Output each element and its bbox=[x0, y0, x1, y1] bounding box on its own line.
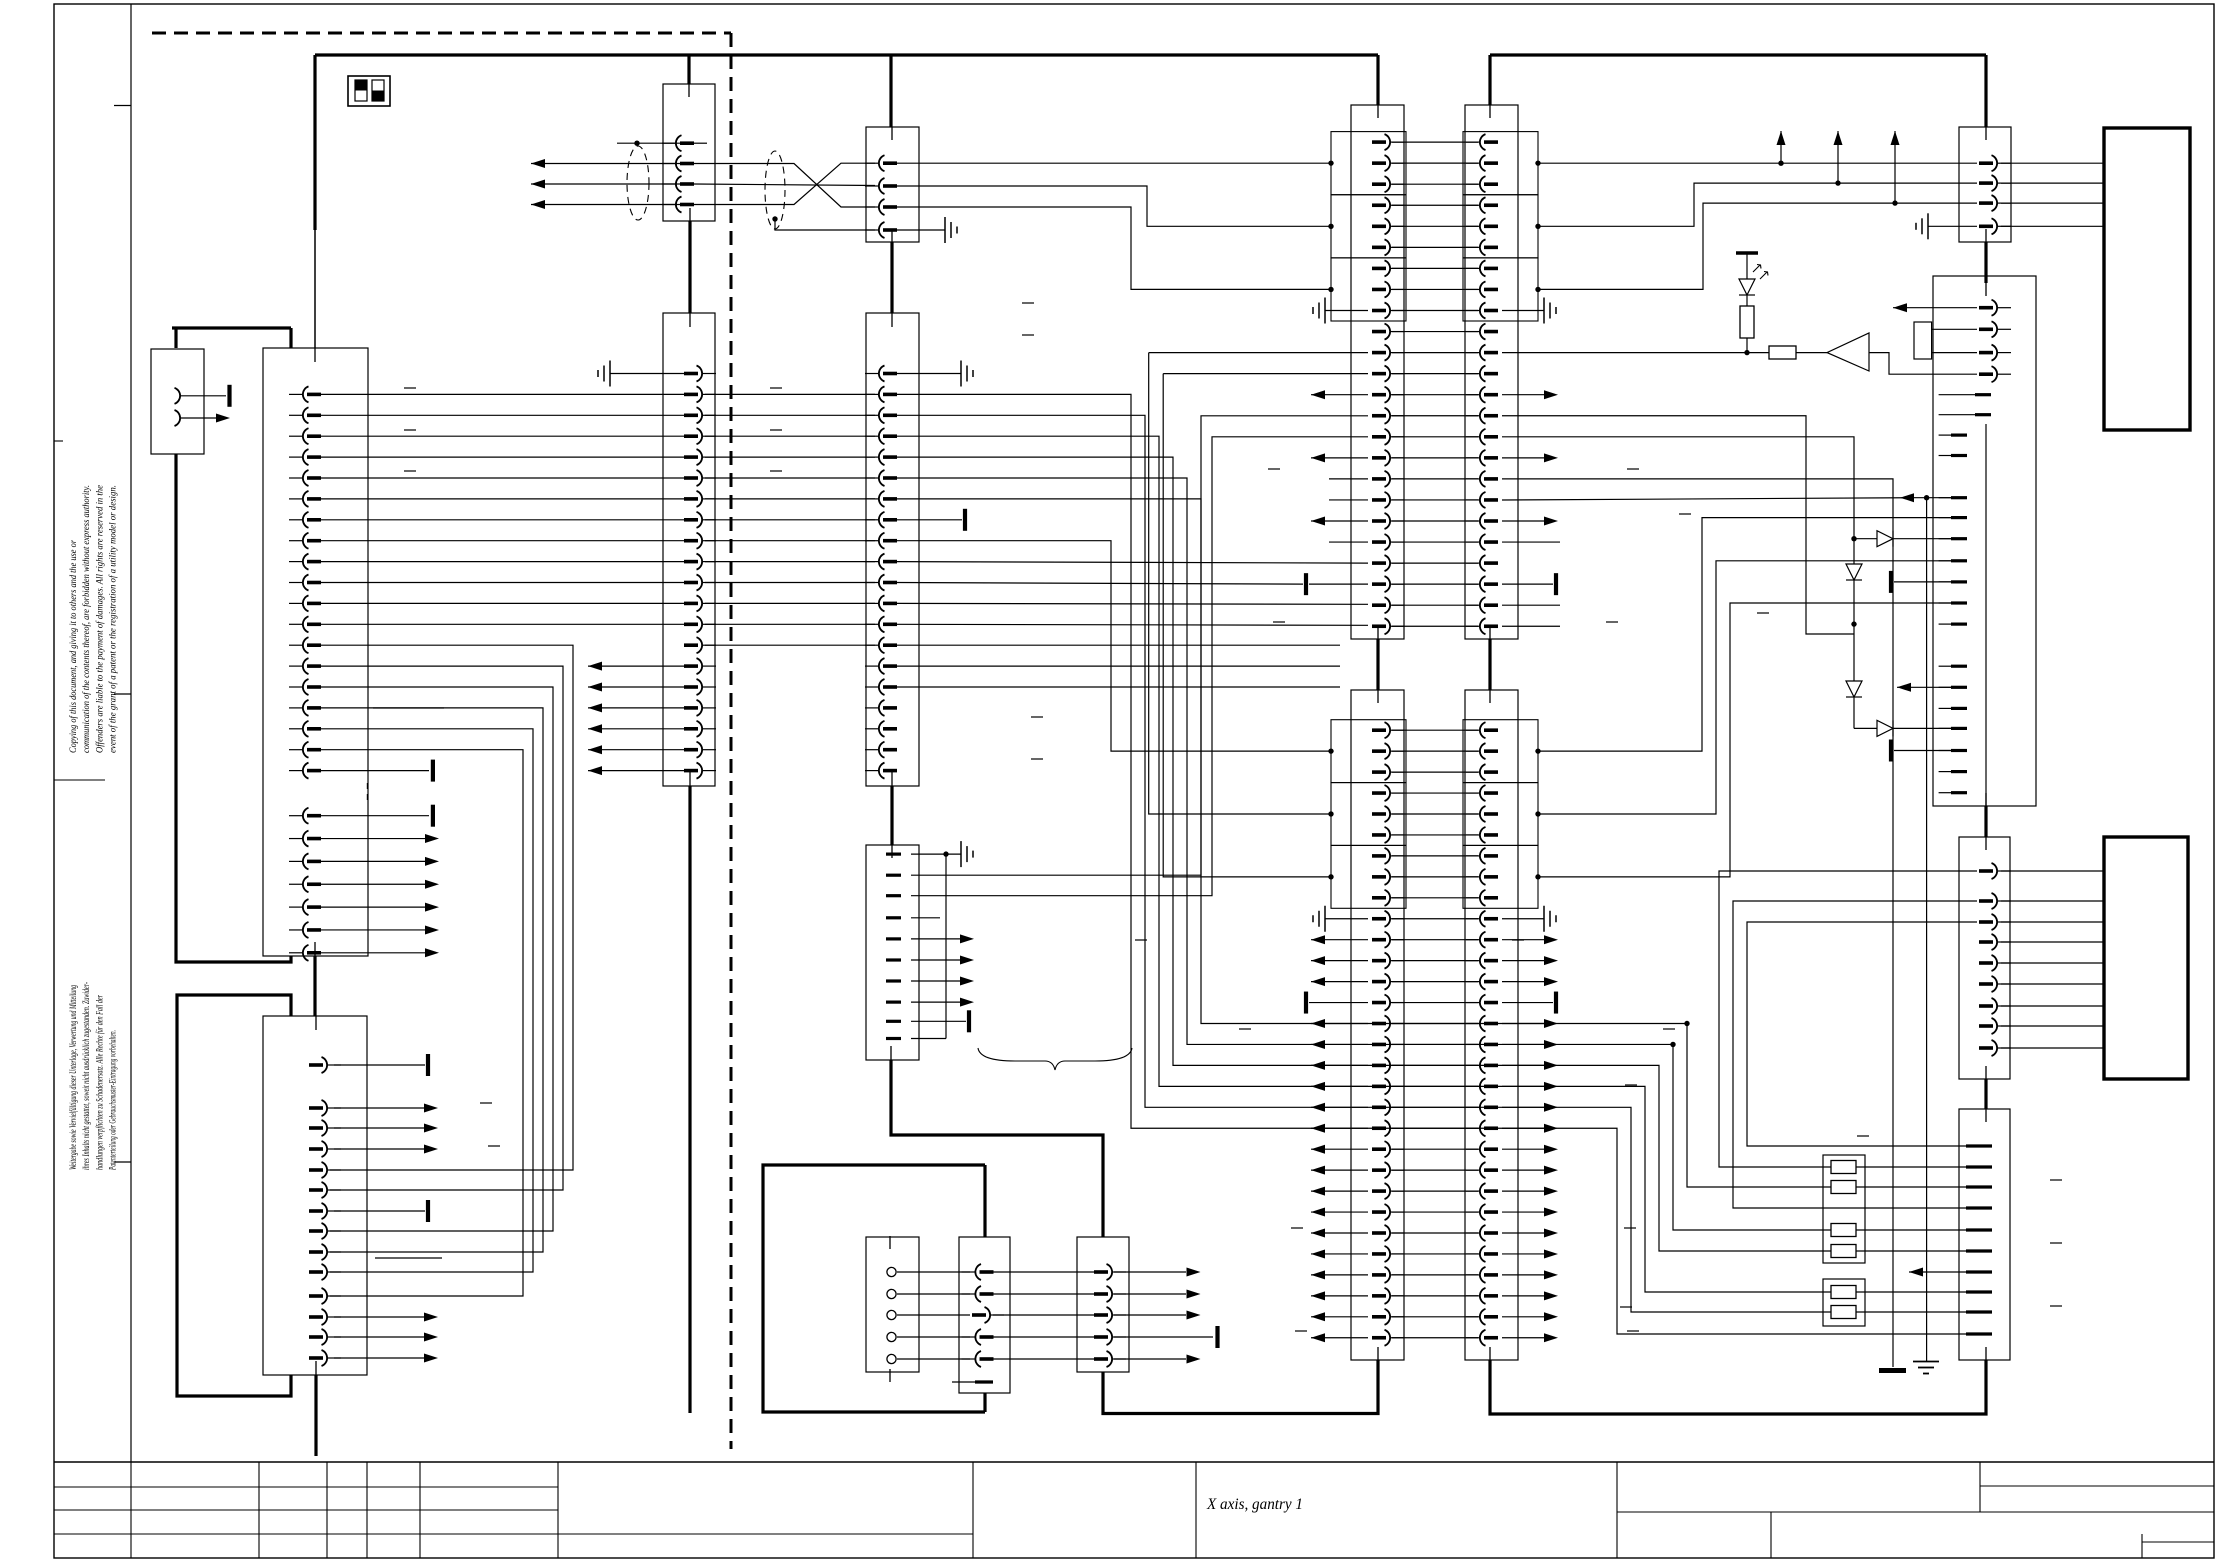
P1 group mid dot R2 bbox=[1535, 224, 1540, 229]
twin P2L pin 29 bbox=[1391, 1316, 1404, 1318]
wire I row9 T-bar bbox=[911, 1020, 966, 1022]
plug N shield pin bbox=[952, 1381, 975, 1383]
node dot staircase b bbox=[1684, 1021, 1689, 1026]
twin P1L pin 11 bbox=[1391, 352, 1404, 354]
connector A pin 1 bbox=[289, 393, 302, 395]
twin P1R pin 5 bbox=[1466, 225, 1479, 227]
twin column P2R body bbox=[1465, 690, 1518, 1360]
bus D to E link bbox=[688, 221, 691, 313]
bus E bottom stub bbox=[688, 786, 691, 1413]
net label tick 9 bbox=[1031, 716, 1043, 718]
P1 left stub row18 bbox=[1329, 499, 1368, 501]
twin P2L pin 16 bbox=[1391, 1043, 1404, 1045]
twin P1R pin 18 bbox=[1466, 499, 1479, 501]
twin P2R pin 20 bbox=[1466, 1127, 1479, 1129]
plug N pin 1 bbox=[962, 1271, 975, 1273]
earth at H row4 bbox=[944, 217, 946, 243]
wire P2 mid3 to J bbox=[1538, 603, 1951, 877]
net label tick 15 bbox=[1239, 1028, 1251, 1030]
bus C to title area bbox=[314, 1375, 317, 1456]
wire E-F row14 bbox=[705, 644, 875, 646]
wire K pin2 to device box bbox=[2001, 900, 2104, 902]
twin P1 gap wire 20 bbox=[1392, 541, 1478, 543]
connector A pin 6 bbox=[289, 498, 302, 500]
P2 group box L1 bbox=[1331, 720, 1406, 783]
connector C pin 4 bbox=[328, 1148, 341, 1150]
connector D pin 2 bbox=[662, 163, 675, 165]
wire K pin7 to device box bbox=[2001, 1005, 2104, 1007]
connector E pin 4 bbox=[703, 435, 716, 437]
connector C body bbox=[263, 1016, 367, 1375]
net label tick 24 bbox=[1620, 1306, 1632, 1308]
earth P1 row9 left bbox=[1324, 298, 1326, 324]
P2 right arrow row19 bbox=[1502, 1106, 1544, 1108]
twin P2 gap wire 18 bbox=[1392, 1085, 1478, 1087]
wire row163 H to P1L bbox=[897, 162, 1331, 164]
wire A row6 to E bbox=[321, 498, 684, 500]
wire F row1 earth bbox=[897, 373, 961, 375]
twin P1L pin 8 bbox=[1391, 288, 1404, 290]
buffer U1 bbox=[1827, 333, 1869, 371]
P2 T-bar row14 left bbox=[1309, 1002, 1368, 1004]
P1 group mid dot L2 bbox=[1328, 224, 1333, 229]
wire E-F row12 bbox=[705, 602, 875, 604]
wire M-N row1 bbox=[897, 1271, 970, 1273]
svg-text:Offenders are liable to the pa: Offenders are liable to the payment of d… bbox=[94, 485, 104, 753]
wire F row12 to P1 bbox=[897, 602, 1368, 605]
twin P1R pin 10 bbox=[1466, 331, 1479, 333]
twin P2R pin 25 bbox=[1466, 1232, 1479, 1234]
wire K pin6 to device box bbox=[2001, 983, 2104, 985]
wire row226 P1R to corner bbox=[1538, 183, 1977, 226]
connector C pin 5 bbox=[328, 1169, 341, 1171]
connector J body bbox=[1933, 276, 2036, 806]
twin P1 gap wire 9 bbox=[1392, 310, 1478, 312]
diode D5 bbox=[1877, 720, 1893, 736]
svg-text:ihres Inhalts nicht gestattet,: ihres Inhalts nicht gestattet, soweit ni… bbox=[81, 982, 91, 1170]
wire r0 descend bbox=[1502, 416, 1854, 634]
plug O pin 4 bbox=[1113, 1336, 1126, 1338]
twin P2L pin 5 bbox=[1391, 813, 1404, 815]
net label tick 32 bbox=[488, 1145, 500, 1147]
twin P1 gap wire 23 bbox=[1392, 604, 1478, 606]
connector F pin 9 bbox=[865, 540, 878, 542]
plug O pin 3 bbox=[1113, 1314, 1126, 1316]
connector J pin dR2 bbox=[1939, 414, 1975, 416]
bus interior stub 18 bbox=[1489, 626, 1491, 639]
connector F pin 3 bbox=[865, 414, 878, 416]
margin text separator 1 bbox=[54, 779, 105, 781]
connector C pin 11 bbox=[328, 1295, 341, 1297]
plug O pin 5 bbox=[1113, 1358, 1126, 1360]
node dot earth branch bbox=[1924, 495, 1929, 500]
twin P2 gap wire 5 bbox=[1392, 813, 1478, 815]
P2 group box R2 bbox=[1463, 783, 1538, 846]
connector J pin dL3 bbox=[1939, 497, 1951, 499]
connector F pin 4 bbox=[865, 435, 878, 437]
net label tick 25 bbox=[1857, 1135, 1869, 1137]
wire N-O row4 bbox=[993, 1336, 1094, 1338]
bus interior stub 2 bbox=[314, 942, 316, 956]
twin P1L pin 9 bbox=[1391, 310, 1404, 312]
connector F pin 1 bbox=[865, 373, 878, 375]
wire E row18 from arrow bbox=[588, 728, 684, 730]
P2 left arrow row22 bbox=[1311, 1169, 1368, 1171]
frame tick 1 bbox=[114, 105, 131, 107]
connector F pin 17 bbox=[865, 707, 878, 709]
connector L pin 3 bbox=[1966, 1185, 1992, 1188]
twin P2 gap wire 14 bbox=[1392, 1002, 1478, 1004]
connector C pin 1 bbox=[328, 1064, 341, 1066]
P2 left arrow row29 bbox=[1311, 1316, 1368, 1318]
P1 group box L2 bbox=[1331, 195, 1406, 258]
wire P2 mid2 to J bbox=[1538, 561, 1951, 814]
connector L pin 4 bbox=[1966, 1206, 1992, 1209]
twin column P1L body bbox=[1351, 105, 1404, 639]
twin P2R pin 14 bbox=[1466, 1002, 1479, 1004]
connector J pin 3 bbox=[1998, 352, 2011, 354]
wire K pin5 to device box bbox=[2001, 962, 2104, 964]
twin P1 gap wire 7 bbox=[1392, 267, 1478, 269]
frame tick 3 bbox=[114, 1161, 131, 1163]
wire row352 P1R to R1 node bbox=[1502, 352, 1747, 354]
bus P2R down right bbox=[1490, 1360, 1986, 1414]
wire C arrow row14 bbox=[334, 1357, 424, 1359]
connector A pin 4 bbox=[289, 456, 302, 458]
bus interior stub 13 bbox=[891, 845, 893, 858]
P1 group box R3 bbox=[1463, 258, 1538, 321]
connector C pin 12 bbox=[328, 1316, 341, 1318]
twin P1 gap wire 12 bbox=[1392, 373, 1478, 375]
wire O arrow row1 bbox=[1114, 1271, 1186, 1273]
connector E pin 2 bbox=[703, 393, 716, 395]
twin P2 gap wire 29 bbox=[1392, 1316, 1478, 1318]
P2 group mid dot L3 bbox=[1328, 874, 1333, 879]
connector C pin 8 bbox=[328, 1230, 341, 1232]
net label tick 29 bbox=[1135, 939, 1147, 941]
twin P2R pin 12 bbox=[1466, 960, 1479, 962]
wire I arrow row 3 bbox=[911, 980, 960, 982]
connector F pin 6 bbox=[865, 477, 878, 479]
wire r3 descend to earth bbox=[1926, 498, 1928, 1362]
connector B pin 2 bbox=[175, 410, 181, 426]
riser up arrow 3 bbox=[1894, 131, 1896, 203]
machine boundary dashed top bbox=[152, 32, 731, 35]
twin P2R pin 23 bbox=[1466, 1190, 1479, 1192]
twin P1R pin 23 bbox=[1466, 604, 1479, 606]
twin P2L pin 15 bbox=[1391, 1023, 1404, 1025]
twin P1L pin 7 bbox=[1391, 267, 1404, 269]
wire I row2 riser to P1 bbox=[911, 416, 1368, 875]
twin P2L pin 20 bbox=[1391, 1127, 1404, 1129]
P1 right stub row20 bbox=[1502, 541, 1560, 543]
resistor RL2 bbox=[1831, 1181, 1856, 1194]
twin P2L pin 25 bbox=[1391, 1232, 1404, 1234]
wire D row1 bbox=[617, 142, 694, 144]
P2 left arrow row30 bbox=[1311, 1337, 1368, 1339]
connector K pin 1 bbox=[1998, 870, 2011, 872]
P2 left arrow row24 bbox=[1311, 1211, 1368, 1213]
twin P1R pin 17 bbox=[1466, 478, 1479, 480]
twin P1L pin 14 bbox=[1391, 415, 1404, 417]
earth at F row1 bbox=[960, 361, 962, 387]
svg-text:communication of the contents: communication of the contents thereof, a… bbox=[81, 485, 91, 753]
margin text separator 2 bbox=[54, 440, 63, 442]
wire I arrow row 1 bbox=[911, 938, 960, 940]
twin P2L pin 22 bbox=[1391, 1169, 1404, 1171]
twin P2 gap wire 7 bbox=[1392, 855, 1478, 857]
bus loop around connector C top bbox=[177, 995, 291, 1396]
twin P1 gap wire 19 bbox=[1392, 520, 1478, 522]
net label line 1 bbox=[373, 707, 444, 709]
connector J interior vertical bbox=[1985, 424, 1987, 806]
twin P1 gap wire 18 bbox=[1392, 499, 1478, 501]
twin P2R pin 9 bbox=[1466, 897, 1479, 899]
wire E-F row11 bbox=[705, 582, 875, 584]
net label tick 18 bbox=[1624, 1227, 1636, 1229]
wire crossover 1 bbox=[694, 164, 875, 208]
node dot diode mid bbox=[1851, 621, 1856, 626]
plug N pin 5 bbox=[962, 1358, 975, 1360]
connector A pin 16 bbox=[289, 707, 302, 709]
twin P2R pin 10 bbox=[1466, 918, 1479, 920]
twin P2 gap wire 2 bbox=[1392, 750, 1478, 752]
connector X20 pin 4 bbox=[1998, 225, 2011, 227]
P2 right arrow row13 bbox=[1502, 981, 1544, 983]
connector F pin 2 bbox=[865, 393, 878, 395]
wire K detour k2 bbox=[1747, 922, 1977, 1146]
wire X20 pin4 to device box bbox=[2001, 225, 2104, 227]
bus drop to connector A bbox=[313, 55, 316, 230]
connector C pin 13 bbox=[328, 1336, 341, 1338]
wire C arrow row2 bbox=[334, 1107, 424, 1109]
twin P2R pin 11 bbox=[1466, 939, 1479, 941]
bus drop to connector H bbox=[889, 55, 892, 127]
twin P1L pin 3 bbox=[1391, 183, 1404, 185]
wire X20 pin1 to device box bbox=[2001, 162, 2104, 164]
connector M pin 3 bbox=[887, 1310, 896, 1319]
resistor RL4 bbox=[1831, 1245, 1856, 1258]
wire row352 vertical to P2 feed 2 bbox=[1149, 353, 1331, 814]
wire K pin4 to device box bbox=[2001, 941, 2104, 943]
twin P1L pin 15 bbox=[1391, 436, 1404, 438]
wire A row15 loop to C bbox=[321, 687, 553, 1231]
twin P2R pin 15 bbox=[1466, 1023, 1479, 1025]
bus I down bbox=[891, 1060, 1103, 1237]
P1 group mid dot L3 bbox=[1328, 287, 1333, 292]
wire staircase u3 bbox=[897, 457, 1831, 1251]
plug N pin 3 bbox=[991, 1314, 1004, 1316]
twin P1L pin 13 bbox=[1391, 394, 1404, 396]
frame inner margin line bbox=[130, 4, 132, 1462]
twin P2L pin 3 bbox=[1391, 771, 1404, 773]
P2 right arrow row17 bbox=[1502, 1064, 1544, 1066]
connector J pin dL10 bbox=[1939, 665, 1951, 667]
connector J pin dL13 bbox=[1939, 727, 1951, 729]
wire A row3 to E bbox=[321, 435, 684, 437]
net label tick 11 bbox=[1268, 468, 1280, 470]
earth at X20 row4 bbox=[1927, 213, 1929, 239]
connector A pin 14 bbox=[289, 665, 302, 667]
twin P2 gap wire 9 bbox=[1392, 897, 1478, 899]
connector A pin 20 bbox=[289, 815, 302, 817]
net label tick 8 bbox=[1022, 334, 1034, 336]
P1 right stub row23 bbox=[1502, 604, 1560, 606]
wire shield drain to H row4 bbox=[775, 219, 875, 230]
node dot staircase a bbox=[1670, 1042, 1675, 1047]
twin P2R pin 29 bbox=[1466, 1316, 1479, 1318]
connector E pin 11 bbox=[703, 582, 716, 584]
wire A row1 to E bbox=[321, 393, 684, 395]
twin P2L pin 21 bbox=[1391, 1148, 1404, 1150]
wire E-F row6 bbox=[705, 477, 875, 479]
twin P1L pin 12 bbox=[1391, 373, 1404, 375]
wire K pin1 to device box bbox=[2001, 870, 2104, 872]
connector A pin 23 bbox=[289, 883, 302, 885]
twin P1L pin 2 bbox=[1391, 162, 1404, 164]
twin P2 gap wire 17 bbox=[1392, 1064, 1478, 1066]
wire X20 row4 bbox=[1928, 225, 1977, 227]
connector L pin 10 bbox=[1966, 1332, 1992, 1335]
twin P2 gap wire 27 bbox=[1392, 1274, 1478, 1276]
connector D pin 1 bbox=[662, 142, 675, 144]
LED D1 bbox=[1746, 253, 1748, 279]
J T-bar row 582 bbox=[1889, 571, 1893, 593]
resistor RL3 bbox=[1831, 1224, 1856, 1237]
P2 group mid dot R2 bbox=[1535, 811, 1540, 816]
connector F pin 12 bbox=[865, 602, 878, 604]
connector F pin 19 bbox=[865, 749, 878, 751]
plug O pin 1 bbox=[1113, 1271, 1126, 1273]
resistor R2 horizontal bbox=[1747, 352, 1769, 354]
connector E pin 8 bbox=[703, 519, 716, 521]
wire C arrow row3 bbox=[334, 1127, 424, 1129]
twin P1L pin 20 bbox=[1391, 541, 1404, 543]
twin P1 gap wire 6 bbox=[1392, 246, 1478, 248]
connector J pin dL6 bbox=[1939, 560, 1951, 562]
net label tick 1 bbox=[404, 387, 416, 389]
twin P2 gap wire 10 bbox=[1392, 918, 1478, 920]
wire O arrow row2 bbox=[1114, 1293, 1186, 1295]
bus J to K link bbox=[1984, 806, 1987, 837]
connector F pin 8 bbox=[865, 519, 878, 521]
twin column P1R body bbox=[1465, 105, 1518, 639]
twin P2R pin 24 bbox=[1466, 1211, 1479, 1213]
connector A pin 17 bbox=[289, 728, 302, 730]
wire row373 vertical to P2 feed 3 bbox=[1163, 374, 1331, 877]
P2 group mid dot R3 bbox=[1535, 874, 1540, 879]
wire C arrow row4 bbox=[334, 1148, 424, 1150]
wire I row4 stub bbox=[911, 917, 940, 919]
wire X20 pin2 to device box bbox=[2001, 182, 2104, 184]
twin P2R pin 30 bbox=[1466, 1337, 1479, 1339]
P1 left arrow row19 bbox=[1311, 520, 1368, 522]
twin P1L pin 18 bbox=[1391, 499, 1404, 501]
wire N-O row3 bbox=[993, 1314, 1094, 1316]
twin P2L pin 17 bbox=[1391, 1064, 1404, 1066]
connector E pin 16 bbox=[703, 686, 716, 688]
connector E pin 17 bbox=[703, 707, 716, 709]
connector I pin 7 bbox=[886, 979, 901, 982]
connector F pin 20 bbox=[865, 770, 878, 772]
wire A row4 to E bbox=[321, 456, 684, 458]
wire A row19 to T-bar bbox=[321, 770, 429, 772]
twin P1R pin 12 bbox=[1466, 373, 1479, 375]
connector I pin 6 bbox=[886, 958, 901, 961]
P1 right stub row24 bbox=[1502, 625, 1560, 627]
twin P2L pin 19 bbox=[1391, 1106, 1404, 1108]
twin P1L pin 10 bbox=[1391, 331, 1404, 333]
wire I arrow row 4 bbox=[911, 1001, 960, 1003]
connector A body bbox=[263, 348, 368, 956]
connector D body bbox=[663, 84, 715, 221]
wire N-O row5 bbox=[993, 1358, 1094, 1360]
connector C pin 14 bbox=[328, 1357, 341, 1359]
bus interior stub 20 bbox=[1489, 690, 1491, 703]
wire E-F row2 bbox=[705, 393, 875, 395]
wire E-F row7 bbox=[705, 498, 875, 500]
wire F row16 long bbox=[897, 686, 1340, 688]
connector D pin 4 bbox=[662, 204, 675, 206]
connector H body bbox=[866, 127, 919, 242]
twin column P2L body bbox=[1351, 690, 1404, 1360]
wire M-N row2 bbox=[897, 1293, 970, 1295]
connector I pin 2 bbox=[886, 874, 901, 877]
wire P2 mid1 to J bbox=[1538, 518, 1951, 752]
bus interior stub 5 bbox=[688, 84, 690, 97]
connector K pin 3 bbox=[1998, 921, 2011, 923]
bus interior stub 28 bbox=[1985, 1066, 1987, 1079]
twin P2R pin 16 bbox=[1466, 1043, 1479, 1045]
wire D row3 with left arrow bbox=[531, 183, 680, 185]
wire row163 P1R to X20 pin1 bbox=[1538, 162, 1977, 164]
P2 right arrow row28 bbox=[1502, 1295, 1544, 1297]
svg-text:Patenterteilung oder Gebrauchs: Patenterteilung oder Gebrauchsmuster-Ein… bbox=[108, 1030, 118, 1171]
P2 right arrow row18 bbox=[1502, 1085, 1544, 1087]
connector I pin 9 bbox=[886, 1020, 901, 1023]
P2 right arrow row24 bbox=[1502, 1211, 1544, 1213]
wire E-F row3 bbox=[705, 414, 875, 416]
wire A row14 loop to C bbox=[321, 666, 563, 1190]
net label tick 28 bbox=[2050, 1305, 2062, 1307]
bus interior stub 21 bbox=[1377, 1347, 1379, 1360]
frame tick 2 bbox=[114, 693, 131, 695]
twin P2 gap wire 25 bbox=[1392, 1232, 1478, 1234]
twin P2 gap wire 4 bbox=[1392, 792, 1478, 794]
connector E pin 15 bbox=[703, 665, 716, 667]
wire O T-bar row4 bbox=[1114, 1336, 1213, 1338]
machine boundary dashed vertical bbox=[730, 33, 733, 1449]
twin P1 gap wire 16 bbox=[1392, 457, 1478, 459]
resistor R1 vertical bbox=[1746, 295, 1748, 306]
connector I pin 1 bbox=[886, 852, 901, 855]
wire buffer input bbox=[1869, 353, 1977, 375]
twin P1R pin 21 bbox=[1466, 562, 1479, 564]
twin P2 gap wire 15 bbox=[1392, 1023, 1478, 1025]
bus interior stub 22 bbox=[1489, 1347, 1491, 1360]
net label tick 5 bbox=[770, 429, 782, 431]
connector I pin 10 bbox=[886, 1037, 901, 1040]
twin P1R pin 4 bbox=[1466, 204, 1479, 206]
connector X20 pin 3 bbox=[1998, 202, 2011, 204]
P2 group mid dot L1 bbox=[1328, 748, 1333, 753]
connector L body bbox=[1959, 1109, 2010, 1360]
enclosure right edge lower bbox=[983, 1393, 986, 1412]
twin P1R pin 1 bbox=[1466, 141, 1479, 143]
P2 left arrow row16 bbox=[1311, 1043, 1368, 1045]
P2 right arrow row23 bbox=[1502, 1190, 1544, 1192]
connector K pin 7 bbox=[1998, 1005, 2011, 1007]
